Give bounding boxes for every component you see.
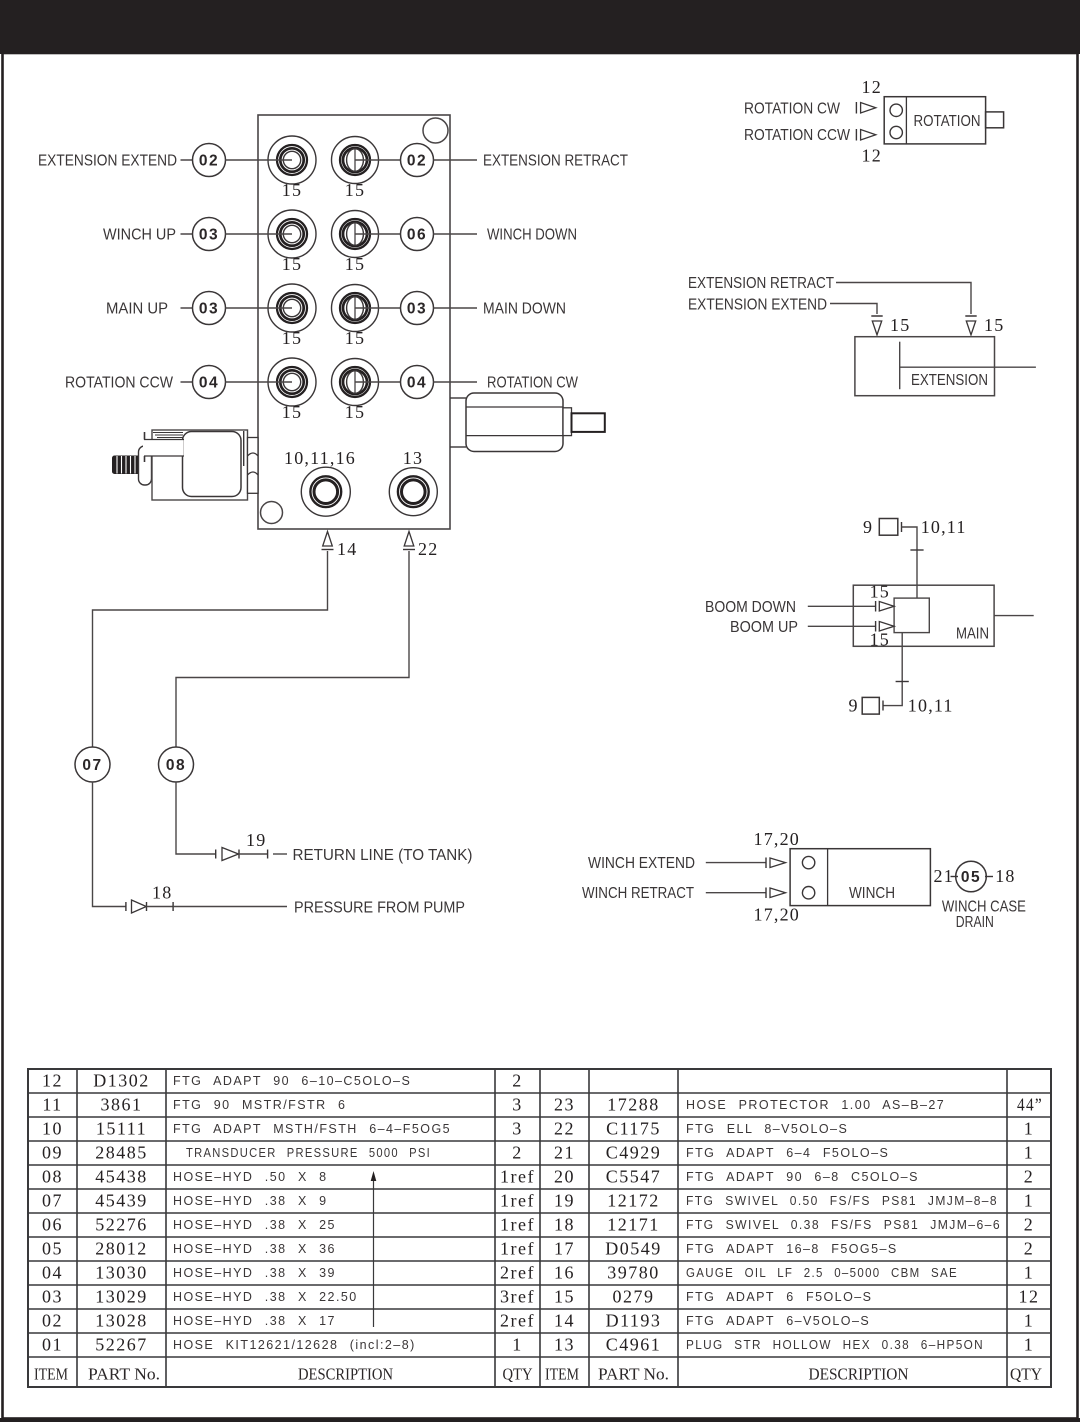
svg-text:15: 15 xyxy=(870,582,890,602)
svg-text:MAIN DOWN: MAIN DOWN xyxy=(483,301,566,318)
svg-text:FTG ADAPT 6 F5OLO–S: FTG ADAPT 6 F5OLO–S xyxy=(686,1290,872,1304)
port EXTENSION EXTEND (left col row1) xyxy=(268,136,316,184)
wire label to balloon 03 xyxy=(181,233,193,235)
balloon 04 xyxy=(193,366,226,399)
svg-text:GAUGE OIL LF 2.5 0–5000 CBM SA: GAUGE OIL LF 2.5 0–5000 CBM SAE xyxy=(686,1266,958,1280)
svg-text:14: 14 xyxy=(554,1310,575,1330)
table row item 20 xyxy=(554,1166,1034,1186)
wire main rod right xyxy=(994,615,1034,617)
table row item 14 xyxy=(554,1310,1034,1330)
wire port to balloon 06 xyxy=(355,233,401,235)
svg-text:ITEM: ITEM xyxy=(545,1364,579,1383)
table row item 07 xyxy=(42,1190,535,1210)
svg-text:HOSE–HYD .38 X 22.50: HOSE–HYD .38 X 22.50 xyxy=(173,1290,358,1304)
wire boom down xyxy=(808,605,876,607)
svg-text:1: 1 xyxy=(1024,1334,1035,1354)
svg-text:1: 1 xyxy=(1024,1310,1035,1330)
svg-text:15: 15 xyxy=(345,180,365,200)
svg-text:15: 15 xyxy=(870,630,890,650)
svg-text:1ref: 1ref xyxy=(500,1238,535,1258)
svg-text:02: 02 xyxy=(407,152,427,169)
svg-text:09: 09 xyxy=(42,1142,63,1162)
table header row xyxy=(34,1364,1042,1383)
svg-text:15: 15 xyxy=(554,1286,575,1306)
svg-text:07: 07 xyxy=(42,1190,63,1210)
svg-text:WINCH: WINCH xyxy=(849,885,895,902)
svg-text:BOOM DOWN: BOOM DOWN xyxy=(705,599,796,616)
svg-text:05: 05 xyxy=(961,869,981,886)
flow arrow boom down xyxy=(876,601,895,612)
svg-text:FTG ADAPT 6–V5OLO–S: FTG ADAPT 6–V5OLO–S xyxy=(686,1314,870,1328)
fitting collar xyxy=(563,408,572,436)
svg-text:15111: 15111 xyxy=(96,1118,147,1138)
port WINCH UP (left col row2) xyxy=(268,210,316,258)
svg-text:28485: 28485 xyxy=(95,1142,148,1162)
svg-text:16: 16 xyxy=(554,1262,575,1282)
table row item 03 xyxy=(42,1286,535,1306)
port WINCH DOWN (right col row2) xyxy=(332,211,379,258)
svg-text:ROTATION CCW: ROTATION CCW xyxy=(65,375,174,392)
svg-text:23: 23 xyxy=(554,1094,575,1114)
svg-text:15: 15 xyxy=(282,402,302,422)
svg-text:2ref: 2ref xyxy=(500,1262,535,1282)
svg-text:21: 21 xyxy=(554,1142,575,1162)
hose tick top xyxy=(910,549,923,551)
table row item 17 xyxy=(554,1238,1034,1258)
table row item 23 xyxy=(554,1094,1043,1114)
svg-text:13028: 13028 xyxy=(95,1310,148,1330)
wire from arrow 22 to balloon 08 xyxy=(176,551,409,747)
svg-text:28012: 28012 xyxy=(95,1238,148,1258)
svg-text:EXTENSION EXTEND: EXTENSION EXTEND xyxy=(38,153,177,170)
svg-text:HOSE KIT12621/12628 (incl:2–8): HOSE KIT12621/12628 (incl:2–8) xyxy=(173,1338,416,1352)
svg-text:TRANSDUCER PRESSURE 5000 PSI: TRANSDUCER PRESSURE 5000 PSI xyxy=(186,1146,431,1160)
svg-text:15: 15 xyxy=(282,254,302,274)
svg-text:13029: 13029 xyxy=(95,1286,148,1306)
table row item 12 xyxy=(42,1070,523,1090)
svg-text:11: 11 xyxy=(42,1094,62,1114)
svg-text:03: 03 xyxy=(407,300,427,317)
flow arrow winch retract xyxy=(766,888,786,899)
flow arrow into rotation port ccw xyxy=(856,129,875,141)
wire port to balloon 04 xyxy=(355,381,401,383)
svg-text:C4929: C4929 xyxy=(606,1142,662,1162)
svg-text:ROTATION CCW: ROTATION CCW xyxy=(744,127,851,144)
wire main bottom port xyxy=(883,633,902,706)
wire balloon to port xyxy=(226,307,293,309)
wire balloon to port xyxy=(226,159,293,161)
svg-text:FTG 90 MSTR/FSTR 6: FTG 90 MSTR/FSTR 6 xyxy=(173,1098,346,1112)
plug 9 bottom xyxy=(849,696,884,716)
balloon 03 xyxy=(401,292,434,325)
table row item 05 xyxy=(42,1238,535,1258)
balloon 05 xyxy=(956,861,987,892)
svg-text:17288: 17288 xyxy=(607,1094,660,1114)
extension cylinder body xyxy=(855,337,1036,396)
wire balloon to label xyxy=(434,381,478,383)
svg-text:FTG ADAPT 90 6–8 C5OLO–S: FTG ADAPT 90 6–8 C5OLO–S xyxy=(686,1170,919,1184)
svg-text:06: 06 xyxy=(407,226,427,243)
svg-text:EXTENSION EXTEND: EXTENSION EXTEND xyxy=(688,297,827,314)
svg-text:D1302: D1302 xyxy=(93,1070,150,1090)
wire label to balloon 03 xyxy=(181,307,193,309)
svg-text:QTY: QTY xyxy=(503,1364,533,1383)
svg-text:DESCRIPTION: DESCRIPTION xyxy=(809,1364,909,1383)
svg-text:52276: 52276 xyxy=(95,1214,148,1234)
svg-text:19: 19 xyxy=(554,1190,575,1210)
svg-text:15: 15 xyxy=(282,328,302,348)
rotation motor body xyxy=(884,97,985,144)
svg-text:08: 08 xyxy=(42,1166,63,1186)
svg-text:44”: 44” xyxy=(1017,1094,1043,1114)
svg-text:04: 04 xyxy=(42,1262,63,1282)
table row item 08 xyxy=(42,1166,535,1186)
svg-text:D1193: D1193 xyxy=(606,1310,662,1330)
bottom black strip xyxy=(0,1418,1080,1422)
svg-text:2ref: 2ref xyxy=(500,1310,535,1330)
svg-text:17: 17 xyxy=(554,1238,575,1258)
table row item 01 xyxy=(42,1334,523,1354)
flow arrow winch extend xyxy=(766,858,786,869)
svg-text:1ref: 1ref xyxy=(500,1214,535,1234)
table row item 15 xyxy=(554,1286,1040,1306)
port MAIN UP (left col row3) xyxy=(268,284,316,332)
svg-text:1: 1 xyxy=(1024,1262,1035,1282)
svg-text:PLUG STR HOLLOW HEX 0.38 6–HP5: PLUG STR HOLLOW HEX 0.38 6–HP5ON xyxy=(686,1338,984,1352)
svg-text:13030: 13030 xyxy=(95,1262,148,1282)
hose tick bottom xyxy=(896,681,909,683)
svg-text:FTG ADAPT 90 6–10–C5OLO–S: FTG ADAPT 90 6–10–C5OLO–S xyxy=(173,1074,411,1088)
svg-text:2: 2 xyxy=(1024,1166,1035,1186)
rotation motor shaft stub xyxy=(986,112,1004,128)
wire plug to main top port xyxy=(902,527,918,598)
wire port to balloon 03 xyxy=(355,307,401,309)
fitting hex body xyxy=(466,393,563,452)
wire balloon 08 to return line xyxy=(176,782,216,854)
table row item 18 xyxy=(554,1214,1034,1234)
table row item 22 xyxy=(554,1118,1034,1138)
svg-text:10: 10 xyxy=(42,1118,63,1138)
solenoid hex nut xyxy=(248,438,259,494)
balloon 03 xyxy=(193,218,226,251)
svg-text:1: 1 xyxy=(1024,1142,1035,1162)
svg-text:12: 12 xyxy=(862,146,882,166)
wire from arrow 14 to balloon 07 xyxy=(93,551,328,747)
svg-text:1ref: 1ref xyxy=(500,1166,535,1186)
balloon 02 xyxy=(401,144,434,177)
svg-text:PART No.: PART No. xyxy=(88,1364,160,1383)
svg-text:03: 03 xyxy=(199,300,219,317)
wire 21 to balloon xyxy=(951,876,959,878)
svg-text:18: 18 xyxy=(152,883,172,903)
block mounting hole top-right xyxy=(423,118,448,143)
table row item 16 xyxy=(554,1262,1034,1282)
svg-text:HOSE–HYD .38 X 17: HOSE–HYD .38 X 17 xyxy=(173,1314,336,1328)
leader arrow to hose kit items xyxy=(371,1171,377,1327)
wire balloon to port xyxy=(226,233,293,235)
flow arrow boom up xyxy=(876,621,895,632)
svg-text:17,20: 17,20 xyxy=(754,905,801,925)
svg-text:1: 1 xyxy=(1024,1190,1035,1210)
table row item 11 xyxy=(42,1094,522,1114)
fitting neck xyxy=(450,397,466,399)
wire winch retract xyxy=(706,892,766,894)
block mounting hole bottom-left xyxy=(261,502,283,524)
svg-text:17,20: 17,20 xyxy=(754,829,801,849)
svg-text:13: 13 xyxy=(403,448,423,468)
svg-text:RETURN LINE (TO TANK): RETURN LINE (TO TANK) xyxy=(293,847,473,864)
wire balloon to label xyxy=(434,307,478,309)
main cylinder body xyxy=(853,585,994,646)
svg-text:15: 15 xyxy=(345,328,365,348)
svg-text:15: 15 xyxy=(890,315,910,335)
port MAIN DOWN (right col row3) xyxy=(332,285,379,332)
top black banner xyxy=(0,0,1080,54)
svg-text:FTG ELL 8–V5OLO–S: FTG ELL 8–V5OLO–S xyxy=(686,1122,848,1136)
balloon 07 xyxy=(75,747,110,782)
port EXTENSION RETRACT (right col row1) xyxy=(332,137,379,184)
flow arrow 22 xyxy=(403,532,415,550)
svg-text:1ref: 1ref xyxy=(500,1190,535,1210)
svg-text:3861: 3861 xyxy=(101,1094,143,1114)
svg-text:12: 12 xyxy=(862,77,882,97)
svg-text:0279: 0279 xyxy=(613,1286,655,1306)
svg-text:C1175: C1175 xyxy=(606,1118,661,1138)
svg-text:MAIN: MAIN xyxy=(956,625,989,642)
svg-text:12171: 12171 xyxy=(607,1214,660,1234)
svg-text:FTG ADAPT 6–4 F5OLO–S: FTG ADAPT 6–4 F5OLO–S xyxy=(686,1146,889,1160)
svg-text:FTG SWIVEL 0.50 FS/FS PS81 JMJ: FTG SWIVEL 0.50 FS/FS PS81 JMJM–8–8 xyxy=(686,1194,998,1208)
svg-text:18: 18 xyxy=(995,866,1015,886)
port 13 (bottom right) xyxy=(389,468,437,516)
svg-text:12172: 12172 xyxy=(607,1190,660,1210)
svg-text:EXTENSION RETRACT: EXTENSION RETRACT xyxy=(688,275,834,292)
svg-text:3ref: 3ref xyxy=(500,1286,535,1306)
svg-text:3: 3 xyxy=(512,1094,523,1114)
svg-text:03: 03 xyxy=(42,1286,63,1306)
wire label to balloon 04 xyxy=(181,381,193,383)
svg-text:03: 03 xyxy=(199,226,219,243)
svg-text:MAIN UP: MAIN UP xyxy=(106,301,168,318)
solenoid stem collar xyxy=(139,432,152,485)
svg-text:D0549: D0549 xyxy=(605,1238,662,1258)
svg-text:02: 02 xyxy=(199,152,219,169)
wire to pressure label xyxy=(173,906,287,908)
svg-text:07: 07 xyxy=(82,757,102,774)
svg-text:ROTATION CW: ROTATION CW xyxy=(744,100,841,117)
svg-text:10,11: 10,11 xyxy=(921,517,967,537)
svg-text:ROTATION: ROTATION xyxy=(914,113,981,130)
wire winch extend xyxy=(706,862,766,864)
port ROTATION CCW (left col row4) xyxy=(268,358,316,406)
svg-text:2: 2 xyxy=(512,1070,523,1090)
plug 9 top xyxy=(863,517,902,537)
svg-text:52267: 52267 xyxy=(95,1334,148,1354)
table row item 10 xyxy=(42,1118,523,1138)
fitting stub xyxy=(572,413,605,432)
svg-text:WINCH UP: WINCH UP xyxy=(103,227,176,244)
wire balloon to 18 xyxy=(985,876,993,878)
balloon 02 xyxy=(193,144,226,177)
balloon 06 xyxy=(401,218,434,251)
wire balloon to label xyxy=(434,233,478,235)
svg-text:EXTENSION RETRACT: EXTENSION RETRACT xyxy=(483,153,628,170)
svg-text:45438: 45438 xyxy=(95,1166,148,1186)
wire balloon to label xyxy=(434,159,478,161)
svg-text:12: 12 xyxy=(1019,1286,1040,1306)
table row item 21 xyxy=(554,1142,1034,1162)
svg-text:PRESSURE FROM PUMP: PRESSURE FROM PUMP xyxy=(294,900,465,917)
flow arrow 14 xyxy=(322,532,334,550)
svg-text:20: 20 xyxy=(554,1166,575,1186)
svg-text:18: 18 xyxy=(554,1214,575,1234)
valve block body xyxy=(258,115,450,529)
svg-text:22: 22 xyxy=(418,539,438,559)
svg-text:WINCH DOWN: WINCH DOWN xyxy=(487,227,577,244)
svg-text:HOSE–HYD .38 X 36: HOSE–HYD .38 X 36 xyxy=(173,1242,336,1256)
table row item 02 xyxy=(42,1310,535,1330)
winch motor body xyxy=(790,849,930,906)
wire label to balloon 02 xyxy=(181,159,193,161)
svg-text:14: 14 xyxy=(337,539,357,559)
table row item 19 xyxy=(554,1190,1034,1210)
svg-text:06: 06 xyxy=(42,1214,63,1234)
wire retract to cylinder xyxy=(836,283,971,315)
svg-text:04: 04 xyxy=(407,374,427,391)
svg-text:39780: 39780 xyxy=(607,1262,660,1282)
svg-text:WINCH RETRACT: WINCH RETRACT xyxy=(582,885,694,902)
flow arrow extend 15 xyxy=(871,316,882,335)
balloon 03 xyxy=(193,292,226,325)
wire port to balloon 02 xyxy=(355,159,401,161)
svg-text:3: 3 xyxy=(512,1118,523,1138)
hose fitting symbol 18 xyxy=(126,900,173,913)
svg-text:2: 2 xyxy=(1024,1238,1035,1258)
svg-text:15: 15 xyxy=(282,180,302,200)
svg-text:2: 2 xyxy=(1024,1214,1035,1234)
wire balloon to port xyxy=(226,381,293,383)
solenoid knurled knob xyxy=(113,456,141,474)
wire dash to return label xyxy=(273,853,287,855)
svg-text:12: 12 xyxy=(42,1070,63,1090)
svg-text:13: 13 xyxy=(554,1334,575,1354)
balloon 04 xyxy=(401,366,434,399)
table row item 04 xyxy=(42,1262,535,1282)
solenoid body xyxy=(143,430,248,500)
wire extend to cylinder xyxy=(830,304,877,315)
svg-text:1: 1 xyxy=(1024,1118,1035,1138)
svg-text:HOSE–HYD .38 X 39: HOSE–HYD .38 X 39 xyxy=(173,1266,336,1280)
flow arrow into rotation port cw xyxy=(856,102,875,114)
svg-text:45439: 45439 xyxy=(95,1190,148,1210)
svg-text:15: 15 xyxy=(345,402,365,422)
table row item 13 xyxy=(554,1334,1034,1354)
svg-text:2: 2 xyxy=(512,1142,523,1162)
svg-text:HOSE PROTECTOR 1.00 AS–B–27: HOSE PROTECTOR 1.00 AS–B–27 xyxy=(686,1098,945,1112)
svg-text:FTG SWIVEL 0.38 FS/FS PS81 JMJ: FTG SWIVEL 0.38 FS/FS PS81 JMJM–6–6 xyxy=(686,1218,1001,1232)
svg-text:05: 05 xyxy=(42,1238,63,1258)
balloon 08 xyxy=(159,747,194,782)
svg-text:1: 1 xyxy=(512,1334,523,1354)
svg-text:22: 22 xyxy=(554,1118,575,1138)
svg-text:15: 15 xyxy=(345,254,365,274)
svg-text:04: 04 xyxy=(199,374,219,391)
svg-text:01: 01 xyxy=(42,1334,63,1354)
svg-text:HOSE–HYD .50 X 8: HOSE–HYD .50 X 8 xyxy=(173,1170,328,1184)
table row item 09 xyxy=(42,1142,523,1162)
svg-text:19: 19 xyxy=(246,830,266,850)
svg-text:C5547: C5547 xyxy=(606,1166,662,1186)
svg-text:08: 08 xyxy=(166,757,186,774)
svg-text:10,11,16: 10,11,16 xyxy=(284,448,356,468)
svg-text:ITEM: ITEM xyxy=(34,1364,68,1383)
wire balloon 07 to pressure line xyxy=(93,782,126,907)
svg-text:PART No.: PART No. xyxy=(598,1364,669,1383)
port 10,11,16 (bottom left) xyxy=(301,467,350,516)
svg-text:ROTATION CW: ROTATION CW xyxy=(487,375,579,392)
svg-text:QTY: QTY xyxy=(1010,1364,1042,1383)
svg-text:15: 15 xyxy=(984,315,1004,335)
table grid xyxy=(28,1069,1051,1387)
svg-text:DESCRIPTION: DESCRIPTION xyxy=(298,1364,393,1383)
svg-text:HOSE–HYD .38 X 25: HOSE–HYD .38 X 25 xyxy=(173,1218,336,1232)
svg-text:HOSE–HYD .38 X 9: HOSE–HYD .38 X 9 xyxy=(173,1194,328,1208)
svg-text:10,11: 10,11 xyxy=(908,696,954,716)
svg-text:C4961: C4961 xyxy=(606,1334,662,1354)
svg-text:02: 02 xyxy=(42,1310,63,1330)
svg-text:9: 9 xyxy=(863,517,873,537)
port ROTATION CW (right col row4) xyxy=(332,359,379,406)
svg-text:WINCH EXTEND: WINCH EXTEND xyxy=(588,855,695,872)
hose fitting symbol 19 xyxy=(216,848,268,861)
wire boom up xyxy=(808,625,876,627)
flow arrow retract 15 xyxy=(965,316,976,335)
svg-text:BOOM UP: BOOM UP xyxy=(730,619,798,636)
table row item 06 xyxy=(42,1214,535,1234)
svg-text:9: 9 xyxy=(849,696,859,716)
svg-text:FTG ADAPT MSTH/FSTH 6–4–F5OG5: FTG ADAPT MSTH/FSTH 6–4–F5OG5 xyxy=(173,1122,451,1136)
svg-text:EXTENSION: EXTENSION xyxy=(911,372,988,389)
svg-text:DRAIN: DRAIN xyxy=(956,914,994,931)
svg-text:FTG ADAPT 16–8 F5OG5–S: FTG ADAPT 16–8 F5OG5–S xyxy=(686,1242,898,1256)
